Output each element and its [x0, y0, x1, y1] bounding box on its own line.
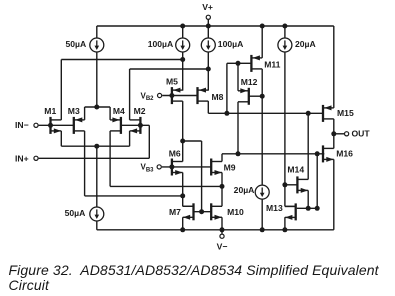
OUT terminal: [345, 132, 349, 136]
junction M3 drain / M6 source: [180, 193, 185, 198]
junction M11 drain / M12 gate: [260, 94, 265, 99]
wire tap to M11 gate node: [227, 62, 238, 64]
svg-text:V−: V−: [217, 241, 228, 251]
wire M14 gate: [285, 184, 298, 186]
transistor M6: [172, 159, 183, 176]
junction rail-I4: [282, 24, 287, 29]
V+ terminal: [206, 15, 210, 19]
wire M9 drain up: [221, 154, 223, 162]
wire IN- to M1/M3 gates: [39, 124, 74, 126]
wire M16 gate line: [222, 153, 324, 155]
junction bridge-I5: [94, 144, 99, 149]
label OUT: [352, 129, 371, 139]
junction M14 gate node: [282, 182, 287, 187]
wire M8 drain to M15 gate: [208, 112, 323, 114]
current source I5 50uA bottom: [90, 207, 104, 221]
junction rail-M11: [260, 24, 265, 29]
wire M16 source down: [333, 159, 335, 229]
wire IN+ to M2/M4 gates: [121, 124, 149, 126]
svg-text:M3: M3: [68, 106, 80, 116]
wire M13 source down: [284, 217, 286, 230]
wire OUT: [334, 133, 344, 135]
label V+: [202, 2, 213, 12]
wire M10 drain up: [221, 186, 223, 206]
svg-text:100µA: 100µA: [148, 39, 174, 49]
label M15: [337, 108, 354, 118]
wire M13 drain lead: [285, 205, 296, 207]
label M16: [336, 148, 353, 158]
junction M5/M6 drains: [180, 139, 185, 144]
wire M15 drain down to OUT: [333, 119, 335, 134]
transistor M7: [183, 203, 194, 220]
junction M2 gate: [138, 123, 143, 128]
svg-text:M1: M1: [44, 106, 56, 116]
label 20uA top: [295, 39, 316, 49]
label M8: [212, 92, 224, 102]
svg-text:M10: M10: [227, 207, 244, 217]
label IN-: [15, 120, 29, 130]
junction bridge-I1: [94, 105, 99, 110]
wire M4 drain down: [109, 131, 111, 187]
junction mirror gates: [199, 209, 204, 214]
wire V+ stub: [207, 20, 209, 26]
svg-text:VB3: VB3: [141, 163, 155, 174]
wire I3 to node B: [207, 52, 209, 69]
junction M4/M9/M10 node: [220, 184, 225, 189]
label M3: [68, 106, 80, 116]
transistor M4: [110, 117, 121, 134]
junction rail-V+: [206, 24, 211, 29]
wire M11 drain to I6: [261, 96, 263, 185]
label 50uA: [65, 39, 86, 49]
svg-text:VB2: VB2: [141, 91, 155, 102]
current source I2 100uA: [176, 38, 190, 52]
junction node A: [180, 57, 185, 62]
wire M7 source down: [182, 217, 184, 230]
junction node B: [206, 67, 211, 72]
IN- terminal: [34, 123, 38, 127]
wire tap up: [226, 63, 228, 113]
junction M10 source / V-: [220, 227, 225, 232]
label M10: [227, 207, 244, 217]
VB2 terminal: [158, 93, 162, 97]
wire IN+ horizontal: [39, 157, 150, 159]
transistor M8: [198, 87, 209, 104]
wire M11 drain down: [261, 69, 263, 96]
svg-text:20µA: 20µA: [234, 185, 255, 195]
wire M11 gate: [238, 62, 251, 64]
junction tap bottom: [315, 206, 320, 211]
wire M13 gate line: [297, 207, 317, 209]
label VB2: [141, 91, 155, 102]
wire M4 drain to M9/M10 node: [110, 185, 222, 187]
svg-text:M14: M14: [287, 165, 304, 175]
label M6: [169, 149, 181, 159]
transistor M13: [285, 203, 296, 220]
transistor M9: [211, 159, 222, 176]
svg-text:M4: M4: [113, 106, 125, 116]
wire I6 to V- rail: [261, 199, 263, 230]
bottom rail V- net: [97, 229, 334, 231]
label 20uA middle: [234, 185, 255, 195]
junction M14 drain / M15 gate line: [306, 111, 311, 116]
svg-text:V+: V+: [202, 2, 213, 12]
label VB3: [141, 163, 155, 174]
wire M14 source down: [307, 190, 309, 208]
wire M8 drain down: [207, 101, 209, 113]
transistor M3: [74, 117, 85, 134]
transistor M5: [172, 87, 183, 104]
wire I2 to node A: [182, 52, 184, 60]
junction I6 bottom: [260, 227, 265, 232]
wire M3 source up: [84, 107, 86, 120]
svg-text:50µA: 50µA: [65, 208, 86, 218]
transistor M12: [238, 88, 249, 105]
wire M12 gate: [249, 95, 262, 97]
wire M11 source up: [261, 26, 263, 58]
wire rail right end down to M15 source: [333, 26, 335, 108]
wire M16-gate tap down: [316, 154, 318, 209]
svg-text:IN−: IN−: [15, 120, 29, 130]
wire M10 source down: [221, 217, 223, 230]
wire M3 drain down: [84, 131, 86, 196]
junction M15-gate-line tap: [224, 111, 229, 116]
figure caption: [9, 263, 379, 292]
svg-text:M9: M9: [224, 162, 236, 172]
transistor M10: [211, 203, 222, 220]
wire VB2 to M5/M8 gates: [162, 95, 197, 97]
wire M5 drain down: [182, 101, 184, 141]
wire rail to I1: [96, 26, 98, 38]
svg-text:M16: M16: [336, 148, 353, 158]
label M4: [113, 106, 125, 116]
wire M3 drain to M6 source node: [85, 195, 183, 197]
wire M1 source down: [60, 131, 62, 146]
junction tap top: [315, 151, 320, 156]
current source I3 100uA: [201, 38, 215, 52]
svg-text:M5: M5: [166, 77, 178, 87]
svg-text:M11: M11: [264, 60, 280, 70]
label M13: [266, 203, 283, 213]
wire rail to I3: [207, 26, 209, 38]
label 50uA bottom: [65, 208, 86, 218]
label V-: [217, 241, 228, 251]
wire rail to I4: [284, 26, 286, 38]
current source I4 20uA top-right: [278, 38, 292, 52]
wire IN+ riser: [148, 125, 150, 158]
current source I6 20uA middle: [255, 185, 269, 199]
wire VB3 to M6/M9 gates: [162, 166, 211, 168]
transistor M11: [251, 55, 262, 72]
wire M12 drain down: [237, 102, 239, 154]
wire M9 source down: [221, 173, 223, 187]
current source I1 50uA top-left: [90, 38, 104, 52]
junction M12 drain / M16 gate line: [236, 151, 241, 156]
label M11: [264, 60, 280, 70]
wire M7/M10 gate tie: [194, 211, 212, 213]
wire M2 source down: [129, 131, 131, 146]
wire M14 drain up: [307, 113, 309, 179]
wire bridge to I5 50uA: [96, 146, 98, 207]
transistor M16: [323, 145, 334, 162]
transistor M15: [323, 105, 334, 122]
transistor M2: [130, 117, 141, 134]
wire node A to M5 source: [182, 60, 184, 91]
label 100uA: [148, 39, 174, 49]
label M5: [166, 77, 178, 87]
svg-text:50µA: 50µA: [65, 39, 86, 49]
wire M6 source down: [182, 173, 184, 207]
VB3 terminal: [157, 165, 161, 169]
svg-text:M8: M8: [212, 92, 224, 102]
svg-text:M13: M13: [266, 203, 283, 213]
wire M1/M2 source bridge: [61, 145, 129, 147]
junction M14 source / M13 gate: [306, 206, 311, 211]
label M12: [241, 77, 258, 87]
label IN+: [15, 153, 29, 163]
svg-text:20µA: 20µA: [295, 39, 316, 49]
wire M12 source up: [237, 63, 239, 91]
svg-text:M12: M12: [241, 77, 258, 87]
wire M1 drain up: [60, 60, 62, 120]
wire M6 drain up: [182, 141, 184, 162]
wire M16 drain up to OUT: [333, 134, 335, 149]
transistor M14: [297, 176, 308, 193]
label M14: [287, 165, 304, 175]
label M9: [224, 162, 236, 172]
junction M1 gate: [48, 123, 53, 128]
junction M7 source: [180, 227, 185, 232]
label M1: [44, 106, 56, 116]
wire I1 to M3/M4 source bridge: [96, 52, 98, 107]
transistor M1: [51, 117, 62, 134]
wire node B to M8 source: [207, 69, 209, 91]
wire M4 source up: [109, 107, 111, 120]
junction M6 gate: [169, 164, 174, 169]
label M2: [134, 106, 146, 116]
wire M2 drain up: [129, 69, 131, 120]
label M7: [169, 207, 181, 217]
svg-text:IN+: IN+: [15, 153, 29, 163]
wire node A horizontal: [61, 59, 182, 61]
wire M5/M6 node to mirror gates corner: [183, 140, 202, 142]
svg-text:M6: M6: [169, 149, 181, 159]
wire V- stub: [221, 230, 223, 234]
wire rail to I2: [182, 26, 184, 38]
svg-text:M7: M7: [169, 207, 181, 217]
junction OUT node: [331, 131, 336, 136]
junction M11 gate node: [236, 61, 241, 66]
svg-text:100µA: 100µA: [218, 39, 244, 49]
svg-text:M2: M2: [134, 106, 146, 116]
wire mirror gate drive down: [201, 141, 203, 212]
svg-text:M15: M15: [337, 108, 354, 118]
junction M13 source: [282, 227, 287, 232]
junction M5 gate: [169, 93, 174, 98]
wire node B horizontal: [130, 68, 209, 70]
junction rail-I2: [180, 24, 185, 29]
label 100uA right: [218, 39, 244, 49]
top rail V+ net: [97, 25, 334, 27]
wire I5 to V- rail: [96, 221, 98, 230]
V- terminal: [220, 234, 224, 238]
IN+ terminal: [34, 156, 38, 160]
wire M3/M4 source bridge: [85, 106, 111, 108]
wire to M7 drain: [183, 205, 194, 207]
svg-text:OUT: OUT: [352, 129, 371, 139]
wire I4 down to M14 gate and M13 drain: [284, 52, 286, 207]
